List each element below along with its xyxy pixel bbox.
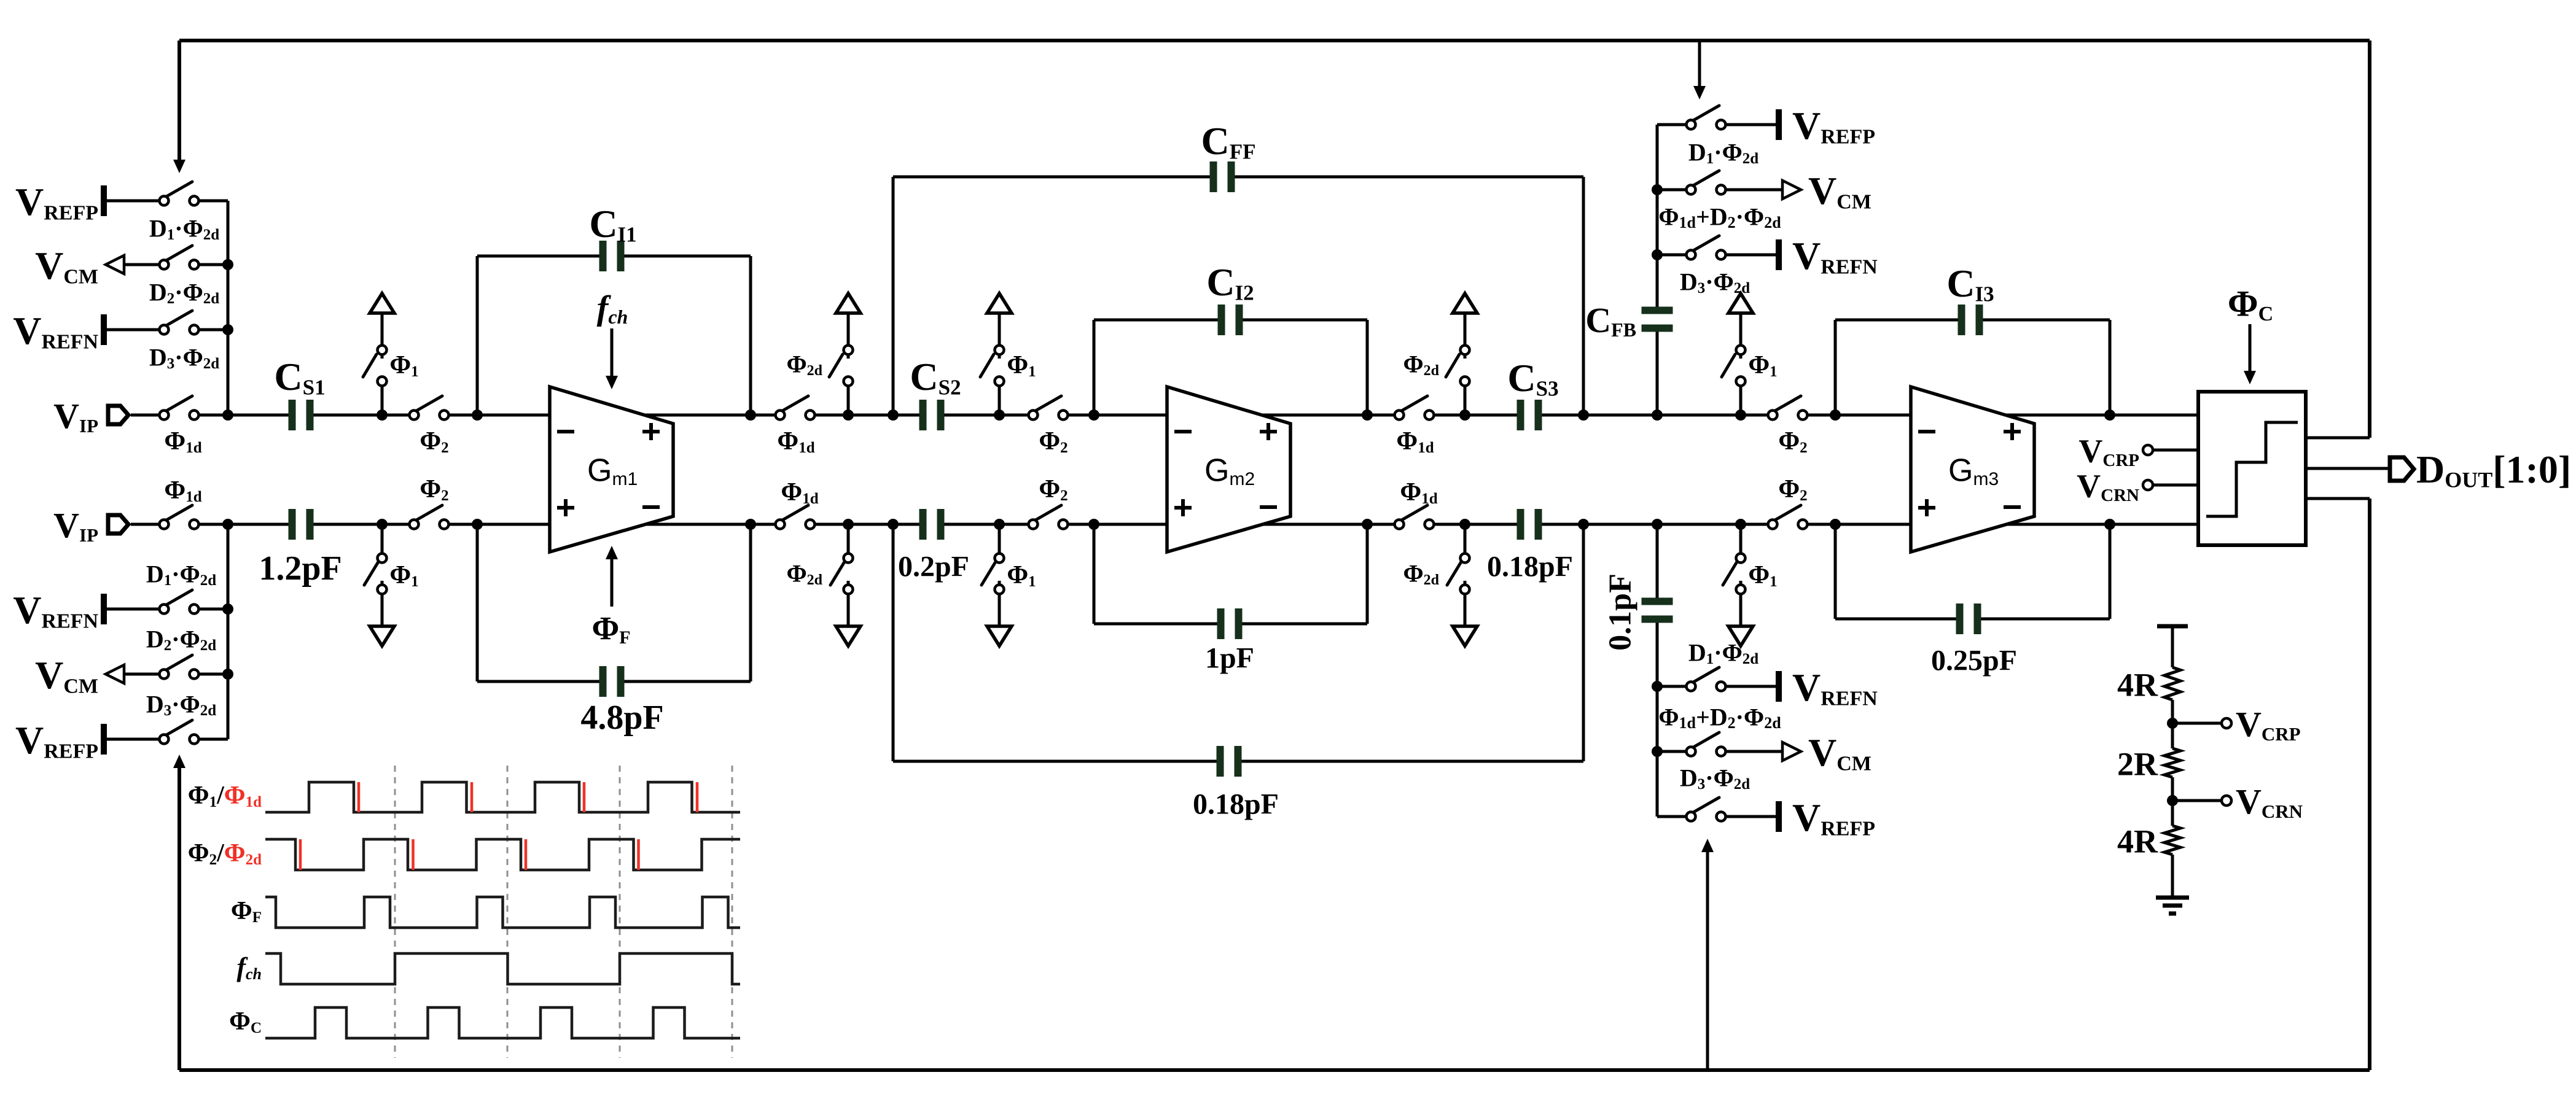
switch D1·Phi2d (top left): [160, 182, 228, 206]
wire VCRN tap: [2177, 796, 2231, 805]
label Phi2d (bottom, stage3 in): [1403, 559, 1439, 588]
label Phi2/Phi2d: [188, 839, 262, 868]
label VREFN (top left): [13, 309, 98, 354]
node DAC column VCM junction (bottom right): [1652, 681, 1663, 692]
svg-text:Φ1d+D2·Φ2d: Φ1d+D2·Φ2d: [1658, 203, 1781, 231]
switch Phi1d (bottom, after amp2): [1395, 505, 1434, 529]
terminal VREFN (top right): [1726, 239, 1779, 270]
waveform Phi2/Phi2d: [265, 839, 740, 870]
switch D2·Phi2d (top left): [160, 246, 228, 270]
node column-VCM junction (bottom left): [222, 669, 233, 680]
switch Phi1 to VCM (top, stage2): [980, 293, 1012, 415]
label VCRN (quantizer): [2077, 467, 2139, 505]
label Phi1d (top, after amp2): [1396, 427, 1434, 456]
node amp3 output junction (bottom): [2104, 519, 2115, 530]
waveform Phi1/Phi1d: [265, 782, 740, 812]
node CFF right junction: [1578, 409, 1589, 421]
node Phi2d junction (bottom, stage2 in): [843, 519, 854, 530]
node amp2 output junction (top): [1362, 409, 1373, 421]
node amp2 input junction (bottom): [1088, 519, 1099, 530]
capacitor CS3 (bottom): [1517, 509, 1542, 540]
node VCRP tap: [2167, 718, 2178, 729]
terminal VCM (bottom right): [1726, 742, 1801, 761]
wire left DAC column (bottom): [227, 524, 230, 739]
label CI3: [1946, 262, 1994, 306]
label Phi1/Phi1d: [188, 782, 262, 810]
label Phi1 (top, stage2): [1007, 351, 1036, 380]
switch Phi1d (top, after amp2): [1395, 396, 1434, 420]
switch Phi2d to VCM (bottom, stage2 in): [830, 524, 861, 646]
terminal VREFN (top left): [104, 314, 160, 345]
label CFB: [1585, 300, 1636, 341]
wire right DAC column (bottom): [1656, 524, 1659, 817]
capacitor 4.8pF: [599, 666, 625, 697]
svg-text:1pF: 1pF: [1205, 642, 1254, 674]
label 1.2pF: [259, 549, 342, 588]
switch Phi2 (top, stage1): [410, 396, 449, 420]
label Phi1 (bottom, stage1): [389, 561, 418, 590]
switch Phi1 to VCM (top, stage1): [363, 293, 394, 415]
label VCM (bottom right): [1808, 731, 1872, 775]
label 2R: [2117, 745, 2158, 782]
switch Phi1d+D2·Phi2d (top right): [1657, 171, 1726, 195]
wire left DAC column (top): [227, 201, 230, 415]
ground: [2156, 898, 2189, 914]
wire ladder bottom: [2171, 855, 2174, 898]
svg-text:DOUT[1:0]: DOUT[1:0]: [2416, 448, 2571, 492]
node CS2 right junction (top): [994, 409, 1005, 421]
label VREFN (top right): [1792, 234, 1878, 279]
switch Phi1 to VCM (bottom, stage3): [1723, 524, 1753, 646]
svg-text:4.8pF: 4.8pF: [580, 699, 663, 737]
label Phi1d (bottom, after amp2): [1400, 478, 1437, 507]
capacitor 0.18pF (feedforward): [1217, 746, 1242, 777]
label VCM (bottom left): [35, 653, 98, 698]
node feedback arrow into D3 switch (bottom left): [173, 755, 185, 768]
label CI2: [1206, 260, 1254, 305]
wire 1pF loop: [1094, 524, 1367, 624]
label Phi2d (bottom, stage2 in): [786, 559, 822, 588]
svg-text:4R: 4R: [2117, 823, 2158, 860]
wire 0.18pF feedforward loop (bottom): [893, 524, 1583, 761]
label Phi2 (bottom, stage2): [1039, 475, 1067, 504]
label 0.25pF: [1931, 644, 2017, 677]
wire DOUT output: [2306, 467, 2388, 470]
label VREFN (bottom left): [13, 588, 98, 633]
port VCRP (quantizer): [2143, 445, 2198, 455]
node amp1 input junction (top): [472, 409, 483, 421]
label Phi1d (top input): [164, 427, 201, 456]
node DAC column VREFN junction (top right): [1652, 249, 1663, 260]
switch Phi2 (bottom, stage3): [1768, 505, 1808, 529]
wire right DAC column (top): [1656, 125, 1659, 415]
label 4R (bottom): [2117, 823, 2158, 860]
label CI1: [589, 202, 636, 247]
wire VCRP tap: [2177, 718, 2231, 728]
label D1·Phi2d (top right): [1688, 138, 1758, 167]
svg-text:Φ1d+D2·Φ2d: Φ1d+D2·Φ2d: [1658, 703, 1781, 732]
wire CI3 loop: [1835, 320, 2110, 415]
capacitor 0.1pF: [1642, 598, 1673, 623]
label 0.18pF (feedforward): [1193, 788, 1279, 820]
wire feedback arrow into top DAC: [1693, 41, 1706, 99]
switch D1·Phi2d (bottom left): [160, 590, 228, 614]
wire fch arrow: [606, 328, 618, 389]
switch D3·Phi2d (top right): [1657, 236, 1726, 260]
svg-text:1.2pF: 1.2pF: [259, 549, 342, 588]
port VIP (bottom): [108, 515, 128, 534]
label D3·Phi2d (top right): [1680, 268, 1750, 297]
node Phi2d junction (top, stage2 in): [843, 409, 854, 421]
wire quantizer output D2 (bottom): [2306, 497, 2370, 500]
resistor 4R (bottom): [2164, 826, 2180, 855]
op-amp Gm3: [1911, 387, 2034, 552]
terminal VCM (bottom left): [106, 665, 160, 683]
switch D3·Phi2d (top left): [160, 311, 228, 335]
switch D1·Phi2d (top right): [1657, 106, 1726, 130]
node CS1 right junction (top): [377, 409, 388, 421]
node amp3 input junction (bottom): [1830, 519, 1841, 530]
label D2·Phi2d (bottom left): [146, 625, 216, 654]
node column-VCM junction (top left): [222, 259, 233, 270]
terminal VREFN (bottom left): [104, 594, 160, 624]
label VREFN (bottom right): [1792, 666, 1878, 710]
switch Phi1d (bottom, after amp1): [776, 505, 815, 529]
wire CFF loop: [893, 177, 1583, 415]
port VIP (top): [108, 406, 128, 424]
capacitor CI1: [599, 241, 625, 271]
label VREFP (bottom left): [15, 718, 98, 763]
label D1·Phi2d (top left): [149, 214, 219, 243]
label Phi2 (top, stage2): [1039, 427, 1067, 456]
node CS2 right junction (bottom): [994, 519, 1005, 530]
label 0.18pF (CS3): [1487, 550, 1573, 583]
node DAC junction Phi1 (top, stage3): [1735, 409, 1746, 421]
wire PhiC arrow: [2244, 324, 2256, 384]
capacitor CS3 (top): [1517, 400, 1542, 430]
wire feedback arrow into bottom DAC: [1701, 839, 1714, 1070]
terminal ladder top: [2157, 624, 2188, 629]
wire ladder seg2: [2171, 777, 2174, 826]
label VREFP (bottom right): [1792, 796, 1875, 840]
label CS2: [910, 355, 961, 400]
capacitor CS2 (top): [919, 400, 945, 430]
svg-text:2R: 2R: [2117, 745, 2158, 782]
svg-text:0.25pF: 0.25pF: [1931, 644, 2017, 677]
capacitor CFF: [1210, 161, 1235, 192]
capacitor CS2 (bottom): [919, 509, 945, 540]
switch Phi2 (top, stage3): [1768, 396, 1808, 420]
wire bottom signal rail: [131, 523, 2198, 526]
switch Phi2d to VCM (bottom, stage3 in): [1447, 524, 1477, 646]
wire ladder top: [2171, 626, 2174, 667]
label CS3: [1507, 356, 1558, 401]
label Phi1d (bottom input): [164, 476, 201, 505]
wire bottom feedback loop: [179, 499, 2370, 1070]
node column-VREFN junction (bottom left): [222, 604, 233, 615]
label VCM (top left): [35, 244, 98, 289]
label Phi1d (top, after amp1): [777, 427, 814, 456]
label VIP (bottom): [53, 505, 98, 546]
wire CI2 loop: [1094, 320, 1367, 415]
waveform PhiF: [265, 897, 740, 928]
node DAC column rail junction (top): [1652, 409, 1663, 421]
label Phi2 (top, stage1): [420, 427, 448, 456]
label D3·Phi2d (bottom left): [146, 690, 216, 719]
switch Phi1d (top input): [160, 396, 199, 420]
wire quantizer output D1 (top): [2306, 437, 2370, 440]
node column-VREFN junction (top left): [222, 324, 233, 335]
svg-text:0.2pF: 0.2pF: [898, 550, 969, 583]
switch Phi2 (bottom, stage2): [1029, 505, 1068, 529]
svg-text:0.18pF: 0.18pF: [1487, 550, 1573, 583]
wire top signal rail: [131, 414, 2198, 417]
label Phi1 (bottom, stage3): [1748, 561, 1777, 590]
svg-text:0.1pF: 0.1pF: [1603, 573, 1638, 651]
label Phi1d (bottom, after amp1): [781, 478, 818, 507]
terminal VREFP (bottom left): [104, 724, 160, 755]
node feedforward left junction (bottom): [888, 519, 899, 530]
node DAC column rail junction (bottom): [1652, 519, 1663, 530]
quantizer block: [2198, 392, 2306, 545]
label DOUT[1:0]: [2416, 448, 2571, 492]
node DAC column VCM junction (top right): [1652, 184, 1663, 195]
label VIP (top): [53, 396, 98, 437]
label Phi2d (top, stage2 in): [786, 350, 822, 379]
capacitor CI2: [1218, 305, 1243, 335]
label 0.1pF: [1603, 573, 1638, 651]
label 4.8pF: [580, 699, 663, 737]
capacitor CS1 (bottom): [289, 509, 314, 540]
svg-text:4R: 4R: [2117, 666, 2158, 703]
label PhiF: [591, 610, 630, 648]
label Phi2 (top, stage3): [1778, 427, 1807, 456]
label Phi1 (top, stage1): [389, 351, 418, 380]
capacitor CS1 (top): [289, 400, 314, 430]
terminal VREFP (top left): [104, 185, 160, 216]
label fch: [597, 289, 628, 328]
node CFF left junction: [888, 409, 899, 421]
port DOUT: [2390, 457, 2414, 481]
label D1·Phi2d (bottom right): [1688, 638, 1758, 667]
label Phi1 (bottom, stage2): [1007, 561, 1036, 590]
capacitor 1pF: [1217, 608, 1243, 639]
switch Phi1 to VCM (bottom, stage1): [364, 524, 394, 646]
capacitor 0.25pF: [1956, 604, 1981, 634]
switch D3·Phi2d (bottom right): [1657, 798, 1726, 821]
switch Phi2d to VCM (top, stage3 in): [1446, 293, 1477, 415]
node CS1 right junction (bottom): [377, 519, 388, 530]
label 4R (top): [2117, 666, 2158, 703]
node DAC column VREFP junction (bottom right): [1652, 746, 1663, 757]
label D2·Phi2d (top left): [149, 278, 219, 307]
label D1·Phi2d (bottom left): [146, 560, 216, 589]
terminal VREFP (top right): [1726, 109, 1779, 140]
terminal VCM (top left): [106, 255, 160, 274]
port VCRN (quantizer): [2143, 480, 2198, 490]
node VCRN tap: [2167, 795, 2178, 806]
label Phi1d+D2·Phi2d (bottom right): [1658, 703, 1781, 732]
label VCRN (ladder): [2236, 782, 2303, 822]
node amp1 output junction (bottom): [745, 519, 756, 530]
label 1pF: [1205, 642, 1254, 674]
switch D3·Phi2d (bottom left): [160, 720, 228, 744]
waveform fch: [265, 953, 740, 984]
node amp3 output junction (top): [2104, 409, 2115, 421]
switch Phi1d+D2·Phi2d (bottom right): [1657, 732, 1726, 756]
switch Phi2 (top, stage2): [1029, 396, 1068, 420]
wire 0.25pF loop: [1835, 524, 2110, 619]
node feedback arrow into D1 switch (top left): [173, 160, 185, 173]
switch Phi1d (bottom input): [160, 505, 199, 529]
terminal VCM (top right): [1726, 180, 1801, 199]
capacitor CI3: [1958, 305, 1983, 335]
label Phi2d (top, stage3 in): [1403, 350, 1439, 379]
wire ladder seg1: [2171, 700, 2174, 748]
switch Phi1 to VCM (bottom, stage2): [982, 524, 1012, 646]
op-amp Gm1: [550, 387, 673, 552]
switch Phi1d (top, after amp1): [776, 396, 815, 420]
label PhiC (timing): [229, 1007, 262, 1036]
label CS1: [274, 355, 325, 400]
label D3·Phi2d (bottom right): [1680, 764, 1750, 793]
node amp2 output junction (bottom): [1362, 519, 1373, 530]
node Phi2d junction (top, stage3 in): [1459, 409, 1470, 421]
terminal VREFN (bottom right): [1726, 671, 1779, 702]
resistor 4R (top): [2164, 667, 2180, 700]
label VREFP (top right): [1792, 104, 1875, 149]
label VCRP (ladder): [2236, 704, 2301, 745]
label D3·Phi2d (top left): [149, 343, 219, 372]
capacitor CFB: [1642, 307, 1673, 332]
node amp3 input junction (top): [1830, 409, 1841, 421]
label Phi2 (bottom, stage3): [1778, 475, 1807, 504]
switch Phi1 to VCM (top, stage3): [1722, 293, 1753, 415]
node amp1 output junction (top): [745, 409, 756, 421]
node amp2 input junction (top): [1088, 409, 1099, 421]
node DAC junction Phi1 (bottom, stage3): [1735, 519, 1746, 530]
svg-text:0.18pF: 0.18pF: [1193, 788, 1279, 820]
waveform PhiC: [265, 1007, 740, 1038]
switch D2·Phi2d (bottom left): [160, 655, 228, 679]
node input junction (top): [222, 409, 233, 421]
resistor 2R: [2164, 748, 2180, 777]
label VCRP (quantizer): [2078, 432, 2139, 470]
label VREFP (top left): [15, 180, 98, 225]
wire PhiF arrow: [606, 546, 618, 607]
node amp1 input junction (bottom): [472, 519, 483, 530]
node input junction (bottom): [222, 519, 233, 530]
gridlines (timing): [395, 766, 732, 1058]
terminal VREFP (bottom right): [1726, 801, 1779, 832]
switch Phi2 (bottom, stage1): [410, 505, 449, 529]
label Phi2 (bottom, stage1): [420, 475, 448, 504]
wire CI1 loop: [477, 256, 751, 415]
wire top feedback loop: [179, 41, 2370, 438]
label Phi1d+D2·Phi2d (top right): [1658, 203, 1781, 231]
label PhiF: [231, 897, 262, 926]
label 0.2pF: [898, 550, 969, 583]
switch D1·Phi2d (bottom right): [1657, 667, 1726, 691]
label PhiC: [2228, 284, 2273, 325]
label VCM (top right): [1808, 169, 1872, 214]
label fch (timing): [236, 952, 262, 983]
node Phi2d junction (bottom, stage3 in): [1459, 519, 1470, 530]
label Phi1 (top, stage3): [1748, 351, 1777, 380]
node feedforward right junction (bottom): [1578, 519, 1589, 530]
switch Phi2d to VCM (top, stage2 in): [829, 293, 861, 415]
label CFF: [1201, 119, 1256, 164]
wire 4.8pF loop: [477, 524, 751, 681]
op-amp Gm2: [1167, 387, 1290, 552]
